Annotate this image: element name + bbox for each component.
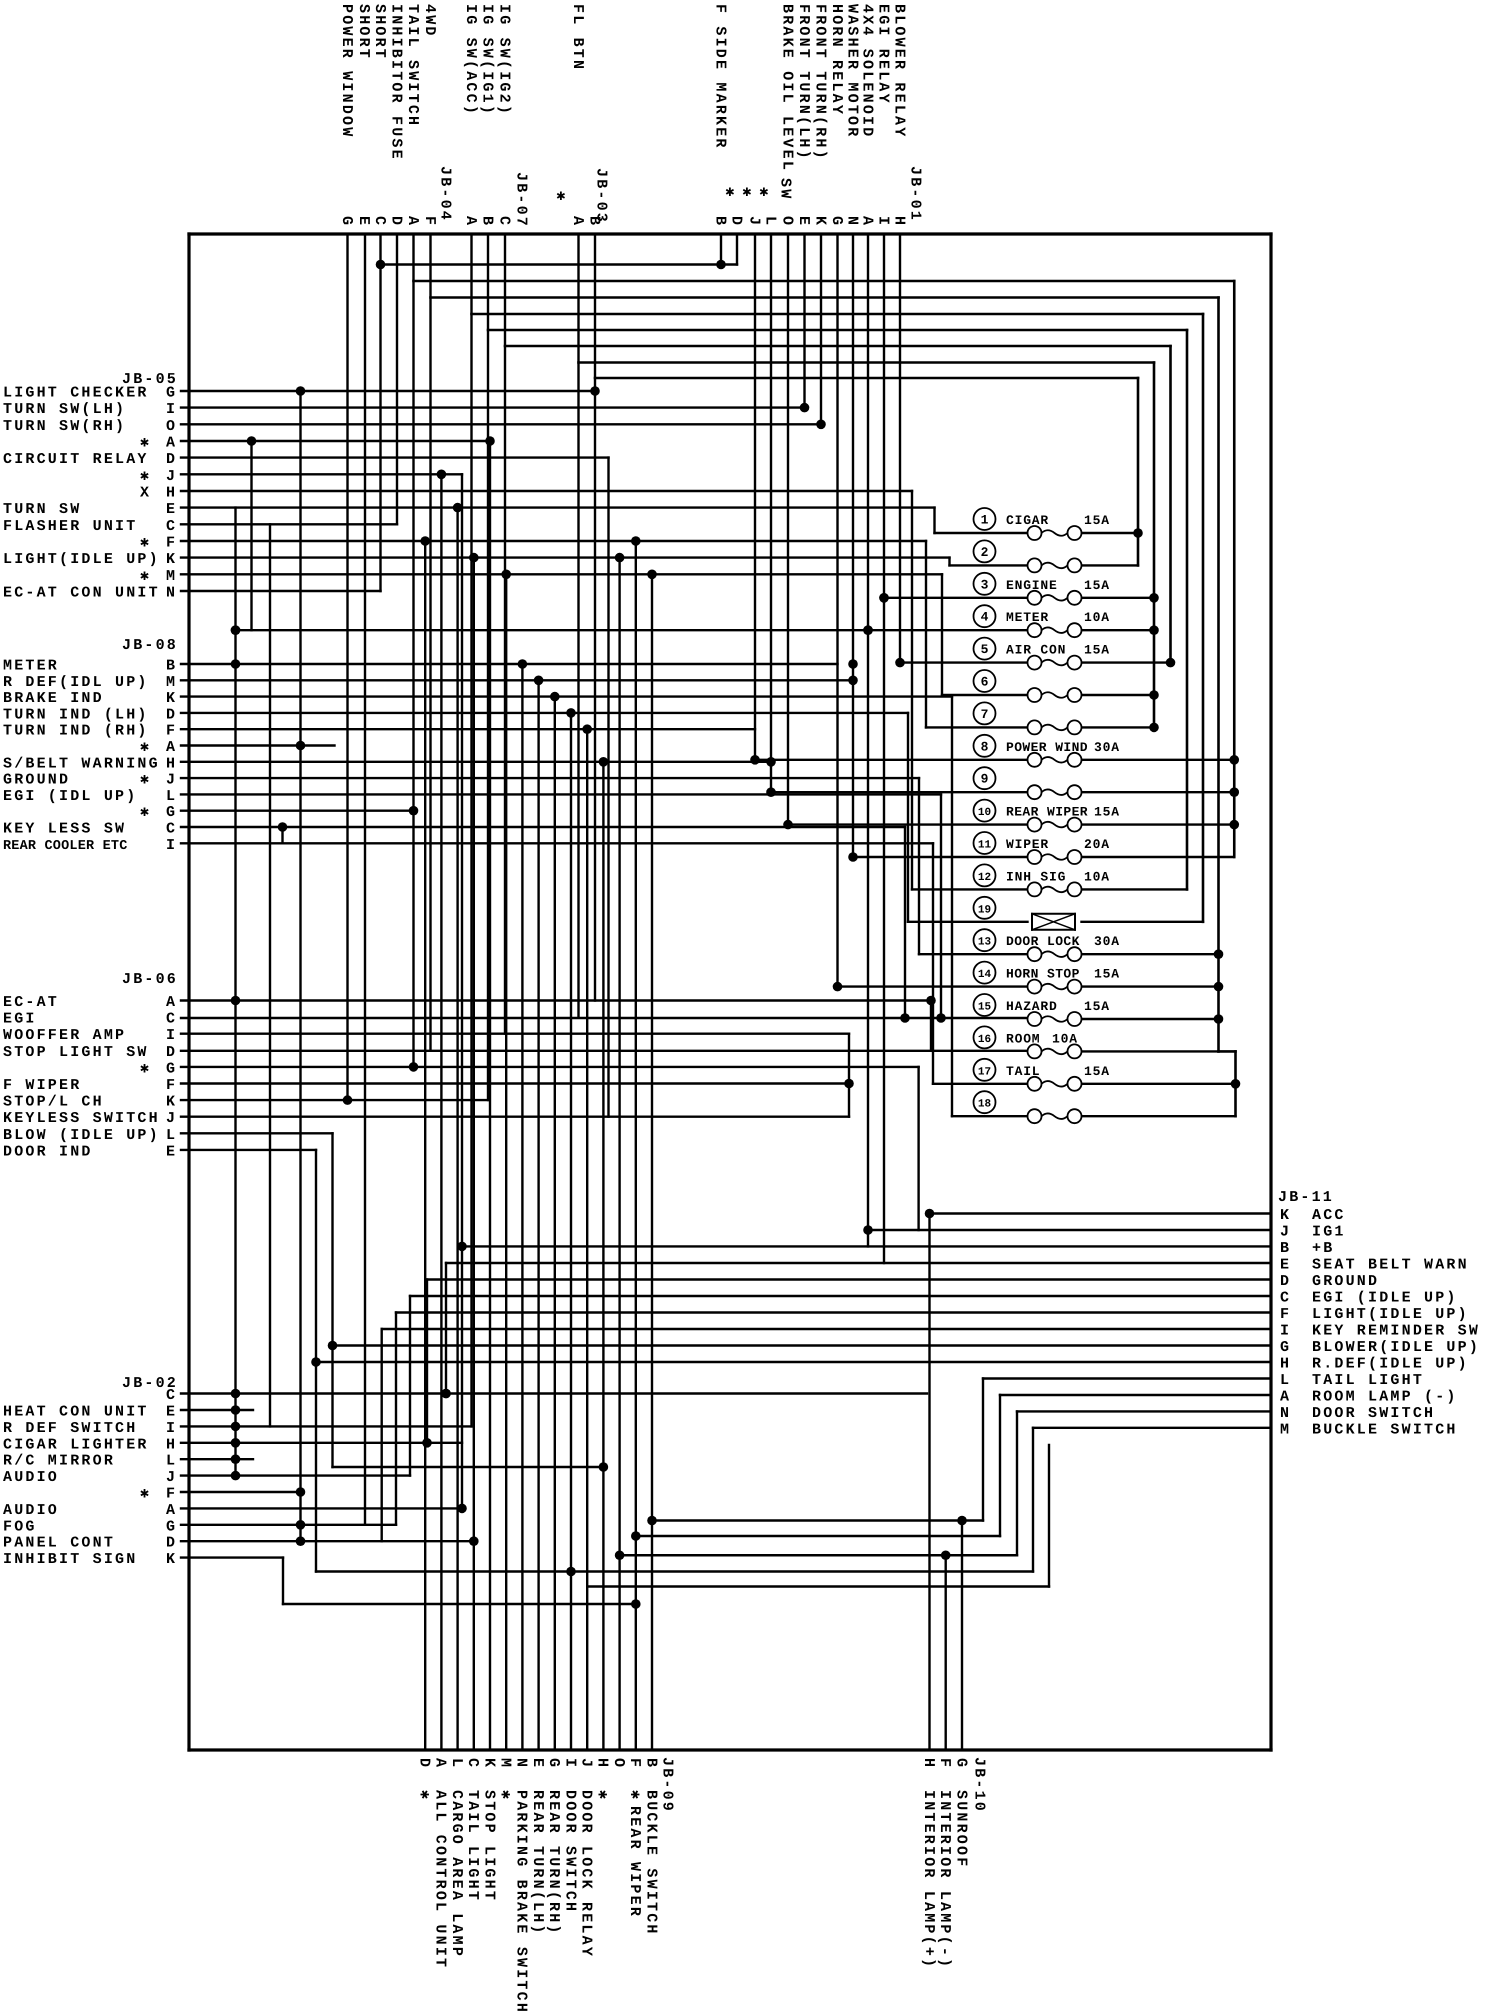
svg-text:ALL CONTROL UNIT: ALL CONTROL UNIT	[432, 1790, 449, 1969]
svg-text:JB-08: JB-08	[122, 637, 178, 654]
svg-text:R/C MIRROR: R/C MIRROR	[3, 1453, 115, 1470]
svg-text:3: 3	[981, 577, 989, 592]
svg-text:BRAKE OIL LEVEL: BRAKE OIL LEVEL	[778, 4, 795, 172]
svg-text:N: N	[1280, 1405, 1291, 1422]
svg-text:G: G	[828, 216, 845, 227]
svg-text:A: A	[166, 739, 177, 756]
svg-text:EGI (IDLE UP): EGI (IDLE UP)	[1312, 1290, 1458, 1307]
svg-text:STOP LIGHT: STOP LIGHT	[480, 1790, 497, 1902]
svg-text:AIR CON: AIR CON	[1006, 643, 1066, 658]
svg-text:R DEF SWITCH: R DEF SWITCH	[3, 1420, 137, 1437]
svg-text:A: A	[858, 216, 875, 227]
svg-text:TURN SW(LH): TURN SW(LH)	[3, 401, 126, 418]
svg-text:✱: ✱	[140, 772, 151, 789]
svg-text:J: J	[166, 772, 177, 789]
svg-text:16: 16	[978, 1034, 991, 1046]
svg-text:7: 7	[981, 707, 989, 722]
svg-text:L: L	[448, 1758, 465, 1769]
svg-text:15A: 15A	[1084, 643, 1110, 658]
svg-text:G: G	[1280, 1339, 1291, 1356]
svg-text:JB-07: JB-07	[512, 172, 529, 228]
svg-text:SEAT BELT WARN: SEAT BELT WARN	[1312, 1257, 1469, 1274]
svg-text:15A: 15A	[1094, 967, 1120, 982]
svg-text:✱: ✱	[556, 188, 567, 205]
svg-text:10A: 10A	[1084, 869, 1110, 884]
svg-text:L: L	[166, 788, 177, 805]
svg-text:A: A	[166, 435, 177, 452]
svg-text:J: J	[166, 1469, 177, 1486]
svg-text:INHIBIT SIGN: INHIBIT SIGN	[3, 1551, 137, 1568]
svg-text:E: E	[529, 1758, 546, 1769]
svg-text:HAZARD: HAZARD	[1006, 999, 1058, 1014]
svg-text:SUNROOF: SUNROOF	[952, 1790, 969, 1868]
svg-text:D: D	[416, 1758, 433, 1769]
svg-text:FRONT TURN(LH): FRONT TURN(LH)	[795, 4, 812, 161]
svg-text:PANEL CONT: PANEL CONT	[3, 1535, 115, 1552]
svg-text:✱: ✱	[416, 1790, 433, 1801]
svg-text:I: I	[1280, 1323, 1291, 1340]
svg-text:F: F	[421, 216, 438, 227]
svg-text:K: K	[166, 551, 177, 568]
svg-text:N: N	[166, 585, 177, 602]
svg-text:SHORT: SHORT	[355, 4, 372, 60]
svg-text:LIGHT(IDLE UP): LIGHT(IDLE UP)	[1312, 1306, 1469, 1323]
svg-text:WIPER: WIPER	[1006, 837, 1049, 852]
svg-text:LIGHT(IDLE UP): LIGHT(IDLE UP)	[3, 551, 160, 568]
svg-text:C: C	[371, 216, 388, 227]
svg-text:15A: 15A	[1084, 999, 1110, 1014]
svg-text:K: K	[166, 690, 177, 707]
svg-text:BUCKLE SWITCH: BUCKLE SWITCH	[642, 1790, 659, 1936]
svg-text:18: 18	[978, 1099, 992, 1111]
svg-text:E: E	[166, 1404, 177, 1421]
svg-text:TURN IND (LH): TURN IND (LH)	[3, 706, 149, 723]
svg-text:30A: 30A	[1094, 740, 1120, 755]
svg-text:17: 17	[978, 1066, 991, 1078]
svg-text:INTERIOR LAMP(+): INTERIOR LAMP(+)	[920, 1790, 937, 1969]
svg-text:TURN IND (RH): TURN IND (RH)	[3, 723, 149, 740]
svg-text:KEYLESS SWITCH: KEYLESS SWITCH	[3, 1110, 160, 1127]
svg-text:S/BELT WARNING: S/BELT WARNING	[3, 755, 160, 772]
svg-text:✱: ✱	[497, 1790, 514, 1801]
svg-text:GROUND: GROUND	[3, 772, 70, 789]
svg-text:M: M	[166, 568, 177, 585]
svg-text:H: H	[166, 755, 177, 772]
svg-text:M: M	[166, 674, 177, 691]
svg-text:WASHER MOTOR: WASHER MOTOR	[843, 4, 860, 138]
svg-text:REAR COOLER ETC: REAR COOLER ETC	[3, 839, 128, 854]
svg-text:13: 13	[978, 937, 992, 949]
svg-text:DOOR IND: DOOR IND	[3, 1143, 93, 1160]
svg-text:B: B	[1280, 1240, 1291, 1257]
svg-text:IG SW(ACC): IG SW(ACC)	[462, 4, 479, 116]
svg-text:STOP/L CH: STOP/L CH	[3, 1094, 104, 1111]
svg-text:A: A	[462, 216, 479, 227]
svg-text:G: G	[166, 804, 177, 821]
svg-text:FRONT TURN(RH): FRONT TURN(RH)	[811, 4, 828, 161]
svg-text:D: D	[1280, 1273, 1291, 1290]
svg-text:6: 6	[981, 675, 989, 690]
svg-text:F: F	[936, 1758, 953, 1769]
svg-text:JB-06: JB-06	[122, 971, 178, 988]
svg-text:10: 10	[978, 807, 991, 819]
svg-text:30A: 30A	[1094, 934, 1120, 949]
svg-text:BUCKLE SWITCH: BUCKLE SWITCH	[1312, 1421, 1458, 1438]
svg-text:REAR WIPER: REAR WIPER	[626, 1806, 643, 1918]
svg-text:DOOR SWITCH: DOOR SWITCH	[561, 1790, 578, 1913]
svg-text:19: 19	[978, 904, 991, 916]
svg-text:JB-10: JB-10	[970, 1757, 987, 1813]
svg-text:A: A	[432, 1758, 449, 1769]
svg-text:4: 4	[981, 610, 989, 625]
svg-text:O: O	[778, 216, 795, 227]
svg-text:I: I	[166, 1420, 177, 1437]
svg-text:8: 8	[981, 739, 989, 754]
svg-text:H: H	[890, 216, 907, 227]
svg-text:15: 15	[978, 1002, 992, 1014]
svg-text:KEY REMINDER SW: KEY REMINDER SW	[1312, 1323, 1480, 1340]
svg-text:5: 5	[981, 642, 989, 657]
svg-text:REAR TURN(LH): REAR TURN(LH)	[529, 1790, 546, 1936]
svg-text:M: M	[1280, 1421, 1291, 1438]
svg-text:AUDIO: AUDIO	[3, 1502, 59, 1519]
svg-text:O: O	[166, 418, 177, 435]
svg-text:G: G	[338, 216, 355, 227]
svg-text:F SIDE MARKER: F SIDE MARKER	[711, 4, 728, 150]
svg-text:METER: METER	[1006, 610, 1049, 625]
svg-text:1: 1	[981, 513, 989, 528]
svg-text:BLOWER(IDLE UP): BLOWER(IDLE UP)	[1312, 1339, 1480, 1356]
svg-text:F: F	[166, 1077, 177, 1094]
svg-text:4X4 SOLENOID: 4X4 SOLENOID	[858, 4, 875, 138]
svg-text:ACC: ACC	[1312, 1207, 1346, 1224]
svg-text:GROUND: GROUND	[1312, 1273, 1379, 1290]
svg-text:IG1: IG1	[1312, 1224, 1346, 1241]
svg-text:INHIBITOR FUSE: INHIBITOR FUSE	[387, 4, 404, 161]
svg-text:STOP LIGHT SW: STOP LIGHT SW	[3, 1044, 149, 1061]
svg-text:EGI (IDL UP): EGI (IDL UP)	[3, 788, 137, 805]
svg-text:JB-03: JB-03	[592, 168, 609, 224]
svg-text:F: F	[626, 1758, 643, 1769]
svg-text:F: F	[166, 535, 177, 552]
svg-text:F: F	[166, 723, 177, 740]
svg-text:A: A	[404, 216, 421, 227]
svg-text:✱: ✱	[742, 184, 753, 201]
svg-text:I: I	[561, 1758, 578, 1769]
svg-text:LIGHT CHECKER: LIGHT CHECKER	[3, 385, 149, 402]
svg-text:C: C	[1280, 1290, 1291, 1307]
svg-text:B: B	[166, 658, 177, 675]
svg-text:FL BTN: FL BTN	[569, 4, 586, 71]
svg-text:PARKING BRAKE SWITCH: PARKING BRAKE SWITCH	[513, 1790, 530, 2014]
svg-text:15A: 15A	[1084, 578, 1110, 593]
svg-text:F: F	[1280, 1306, 1291, 1323]
svg-text:10A: 10A	[1084, 610, 1110, 625]
svg-text:14: 14	[978, 969, 992, 981]
svg-text:CIGAR: CIGAR	[1006, 513, 1049, 528]
svg-text:10A: 10A	[1052, 1031, 1078, 1046]
svg-text:E: E	[355, 216, 372, 227]
svg-text:C: C	[495, 216, 512, 227]
svg-text:✱: ✱	[140, 804, 151, 821]
svg-text:4WD: 4WD	[421, 4, 438, 38]
svg-text:J: J	[578, 1758, 595, 1769]
svg-text:✱: ✱	[759, 184, 770, 201]
svg-text:SW: SW	[776, 178, 793, 200]
svg-text:D: D	[166, 1535, 177, 1552]
svg-text:E: E	[795, 216, 812, 227]
svg-text:D: D	[166, 706, 177, 723]
svg-text:DOOR SWITCH: DOOR SWITCH	[1312, 1405, 1435, 1422]
svg-text:H: H	[1280, 1356, 1291, 1373]
svg-text:KEY LESS SW: KEY LESS SW	[3, 821, 126, 838]
svg-text:CIRCUIT RELAY: CIRCUIT RELAY	[3, 451, 149, 468]
svg-text:SHORT: SHORT	[371, 4, 388, 60]
svg-text:+B: +B	[1312, 1240, 1334, 1257]
svg-text:H: H	[920, 1758, 937, 1769]
svg-text:F: F	[166, 1486, 177, 1503]
svg-text:F WIPER: F WIPER	[3, 1077, 81, 1094]
svg-text:TURN SW: TURN SW	[3, 501, 81, 518]
svg-text:IG SW(IG1): IG SW(IG1)	[478, 4, 495, 116]
svg-text:REAR TURN(RH): REAR TURN(RH)	[545, 1790, 562, 1936]
svg-text:HEAT CON UNIT: HEAT CON UNIT	[3, 1404, 149, 1421]
svg-text:E: E	[166, 1143, 177, 1160]
svg-text:G: G	[545, 1758, 562, 1769]
svg-text:✱: ✱	[140, 1060, 151, 1077]
svg-text:INH SIG: INH SIG	[1006, 869, 1066, 884]
svg-text:✱: ✱	[725, 184, 736, 201]
svg-text:BLOW (IDLE UP): BLOW (IDLE UP)	[3, 1127, 160, 1144]
svg-text:JB-09: JB-09	[658, 1757, 675, 1813]
svg-text:G: G	[952, 1758, 969, 1769]
svg-text:M: M	[497, 1758, 514, 1769]
svg-text:EC-AT: EC-AT	[3, 994, 59, 1011]
svg-text:K: K	[811, 216, 828, 227]
svg-text:G: G	[166, 385, 177, 402]
svg-text:BLOWER RELAY: BLOWER RELAY	[890, 4, 907, 138]
svg-text:ROOM: ROOM	[1006, 1031, 1040, 1046]
svg-text:✱: ✱	[140, 1486, 151, 1503]
svg-text:JB-01: JB-01	[906, 166, 923, 222]
svg-text:20A: 20A	[1084, 837, 1110, 852]
svg-text:FOG: FOG	[3, 1518, 37, 1535]
svg-text:WOOFFER AMP: WOOFFER AMP	[3, 1027, 126, 1044]
svg-text:REAR WIPER: REAR WIPER	[1006, 805, 1088, 820]
svg-text:A: A	[1280, 1389, 1291, 1406]
svg-text:✱: ✱	[140, 535, 151, 552]
svg-text:FLASHER UNIT: FLASHER UNIT	[3, 518, 137, 535]
svg-text:D: D	[166, 451, 177, 468]
svg-text:I: I	[166, 837, 177, 854]
svg-text:D: D	[727, 216, 744, 227]
svg-text:15A: 15A	[1084, 1064, 1110, 1079]
svg-text:HORN RELAY: HORN RELAY	[828, 4, 845, 116]
svg-text:IG SW(IG2): IG SW(IG2)	[495, 4, 512, 116]
svg-text:G: G	[166, 1518, 177, 1535]
svg-text:I: I	[874, 216, 891, 227]
svg-text:TURN SW(RH): TURN SW(RH)	[3, 418, 126, 435]
svg-text:DOOR LOCK RELAY: DOOR LOCK RELAY	[578, 1790, 595, 1958]
svg-text:BRAKE IND: BRAKE IND	[3, 690, 104, 707]
svg-text:TAIL LIGHT: TAIL LIGHT	[464, 1790, 481, 1902]
svg-text:A: A	[166, 994, 177, 1011]
svg-text:D: D	[387, 216, 404, 227]
svg-text:12: 12	[978, 872, 991, 884]
svg-text:C: C	[166, 1387, 177, 1404]
svg-text:C: C	[166, 1011, 177, 1028]
svg-text:D: D	[166, 1044, 177, 1061]
svg-text:HORN STOP: HORN STOP	[1006, 967, 1080, 982]
svg-text:I: I	[166, 1027, 177, 1044]
svg-text:JB-11: JB-11	[1278, 1189, 1334, 1206]
svg-text:B: B	[478, 216, 495, 227]
svg-text:DOOR LOCK: DOOR LOCK	[1006, 934, 1080, 949]
svg-text:INTERIOR LAMP(-): INTERIOR LAMP(-)	[936, 1790, 953, 1969]
svg-text:AUDIO: AUDIO	[3, 1469, 59, 1486]
svg-text:H: H	[594, 1758, 611, 1769]
svg-text:L: L	[166, 1127, 177, 1144]
svg-text:R.DEF(IDLE UP): R.DEF(IDLE UP)	[1312, 1356, 1469, 1373]
svg-text:K: K	[1280, 1207, 1291, 1224]
svg-text:A: A	[166, 1502, 177, 1519]
svg-text:L: L	[1280, 1372, 1291, 1389]
svg-text:METER: METER	[3, 658, 59, 675]
svg-text:TAIL LIGHT: TAIL LIGHT	[1312, 1372, 1424, 1389]
svg-text:C: C	[166, 518, 177, 535]
svg-text:15A: 15A	[1094, 805, 1120, 820]
svg-text:K: K	[166, 1551, 177, 1568]
svg-text:N: N	[843, 216, 860, 227]
svg-text:ROOM LAMP (-): ROOM LAMP (-)	[1312, 1389, 1458, 1406]
svg-text:J: J	[1280, 1224, 1291, 1241]
svg-text:✱: ✱	[594, 1790, 611, 1801]
svg-text:15A: 15A	[1084, 513, 1110, 528]
svg-text:CARGO AREA LAMP: CARGO AREA LAMP	[448, 1790, 465, 1958]
svg-text:H: H	[166, 485, 177, 502]
svg-text:POWER WINDOW: POWER WINDOW	[338, 4, 355, 138]
svg-text:11: 11	[978, 840, 992, 852]
svg-text:I: I	[166, 401, 177, 418]
svg-text:E: E	[1280, 1257, 1291, 1274]
svg-text:JB-04: JB-04	[436, 166, 453, 222]
svg-text:L: L	[761, 216, 778, 227]
svg-text:2: 2	[981, 545, 989, 560]
svg-text:B: B	[711, 216, 728, 227]
svg-text:ENGINE: ENGINE	[1006, 578, 1058, 593]
svg-text:R DEF(IDL UP): R DEF(IDL UP)	[3, 674, 149, 691]
svg-text:CIGAR LIGHTER: CIGAR LIGHTER	[3, 1436, 149, 1453]
svg-text:J: J	[166, 1110, 177, 1127]
svg-text:H: H	[166, 1436, 177, 1453]
svg-text:E: E	[166, 501, 177, 518]
svg-text:B: B	[642, 1758, 659, 1769]
svg-text:✱: ✱	[140, 739, 151, 756]
svg-text:L: L	[166, 1453, 177, 1470]
svg-text:X: X	[140, 485, 151, 502]
svg-text:N: N	[513, 1758, 530, 1769]
svg-text:J: J	[745, 216, 762, 227]
svg-text:A: A	[569, 216, 586, 227]
svg-text:EGI: EGI	[3, 1011, 37, 1028]
svg-text:EGI RELAY: EGI RELAY	[874, 4, 891, 105]
svg-text:K: K	[166, 1094, 177, 1111]
svg-text:C: C	[464, 1758, 481, 1769]
svg-text:✱: ✱	[140, 468, 151, 485]
svg-text:✱: ✱	[626, 1790, 643, 1801]
svg-text:EC-AT CON UNIT: EC-AT CON UNIT	[3, 585, 160, 602]
svg-text:✱: ✱	[140, 435, 151, 452]
svg-text:✱: ✱	[140, 568, 151, 585]
svg-text:G: G	[166, 1060, 177, 1077]
svg-text:C: C	[166, 821, 177, 838]
svg-text:TAIL SWITCH: TAIL SWITCH	[404, 4, 421, 127]
svg-text:POWER WIND: POWER WIND	[1006, 740, 1088, 755]
svg-text:O: O	[610, 1758, 627, 1769]
svg-text:K: K	[480, 1758, 497, 1769]
svg-text:9: 9	[981, 772, 989, 787]
svg-text:J: J	[166, 468, 177, 485]
svg-text:TAIL: TAIL	[1006, 1064, 1040, 1079]
